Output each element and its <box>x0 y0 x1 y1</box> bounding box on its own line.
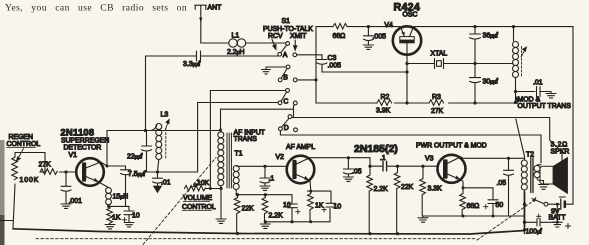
transistor V2 <box>287 156 315 184</box>
svg-text:.005: .005 <box>328 63 342 70</box>
capacitor 30uuf <box>470 64 481 104</box>
svg-text:Yes, you can use CB radio sets: Yes, you can use CB radio sets on <box>5 3 187 14</box>
capacitor 100uf <box>525 219 558 227</box>
node .05 junction (V2 collector) <box>347 156 350 159</box>
wire .01 branch <box>516 91 536 93</box>
node 30uuf top <box>473 62 476 65</box>
svg-text:7.5μμf: 7.5μμf <box>128 171 145 178</box>
antenna ANT <box>195 5 207 43</box>
node osc coil bottom / mod junction <box>514 90 517 93</box>
wire ground to switch B upper contact <box>266 66 286 68</box>
wire L1 to switch A upper contact <box>246 42 286 44</box>
capacitor 7.5uuf <box>121 170 131 207</box>
node 100uf right <box>556 221 559 224</box>
ground below 3.3K <box>418 216 428 222</box>
wire T1 secondary bottom <box>236 194 292 196</box>
svg-text:V3: V3 <box>425 156 434 163</box>
wire D upper riser corner down to T1 <box>220 109 222 129</box>
svg-text:2.2K: 2.2K <box>374 186 389 193</box>
node mod-R3 wire <box>514 101 517 104</box>
wire base line right part <box>388 165 437 167</box>
capacitor 3.3uuf <box>197 51 201 61</box>
wire riser x316 top wire to R2 wire <box>315 27 317 103</box>
wire V2 emitter <box>309 181 312 192</box>
resistor 68ohm (V3 emitter) <box>460 188 466 216</box>
svg-text:AF AMPL: AF AMPL <box>286 144 315 151</box>
svg-text:OSC: OSC <box>403 12 418 19</box>
wire V1 collector up and tank top <box>101 131 221 167</box>
transformer T1 <box>218 129 239 195</box>
arrow XMIT <box>294 40 297 50</box>
wire R2R3 line <box>316 102 516 104</box>
node tank top 3.3 riser <box>144 129 147 132</box>
underline regen control <box>7 147 36 149</box>
capacitor .05 (mod) <box>504 158 514 216</box>
node 2.2K rail <box>368 232 371 235</box>
arrow RCV <box>272 40 276 50</box>
wire mod line down to speaker <box>550 118 562 164</box>
svg-text:22μμf: 22μμf <box>127 154 142 161</box>
node collector-7.5 junction <box>106 165 109 168</box>
capacitor 10 (V2 emitter bypass) <box>326 191 336 207</box>
svg-text:36μμf: 36μμf <box>483 33 498 40</box>
capacitor 36uuf <box>470 27 481 64</box>
node C3 to base <box>405 70 408 73</box>
ground T2 secondary bottom <box>539 181 549 190</box>
switch pole D <box>279 115 298 132</box>
wire XTAL to osc coil <box>444 63 514 65</box>
node coupling left <box>368 165 371 168</box>
capacitor .005 (osc bypass) <box>363 27 373 41</box>
node T1 primary bottom <box>219 187 222 190</box>
coil L1 <box>229 39 246 47</box>
svg-text:27K: 27K <box>39 162 52 169</box>
wire V2 collector <box>310 157 370 159</box>
resistor 22K (V3 base) <box>394 166 400 234</box>
capacitor 22uuf <box>142 131 152 173</box>
svg-text:B: B <box>283 75 288 82</box>
node 100uf left <box>523 221 526 224</box>
plus sign (first 10) <box>296 210 300 214</box>
ground below .1 <box>260 186 270 190</box>
svg-text:.05: .05 <box>352 169 362 176</box>
svg-text:3.2Ω: 3.2Ω <box>551 142 569 149</box>
ground below 2.2K <box>260 222 270 229</box>
wire 3.3K ground to 68 bottom row <box>423 215 525 217</box>
svg-text:R3: R3 <box>432 94 441 101</box>
svg-text:XTAL: XTAL <box>431 51 448 58</box>
wire D pivot to audio line y135 <box>280 131 541 163</box>
plus sign (50) <box>484 205 488 209</box>
node 22K rail <box>236 232 239 235</box>
switch pole C <box>278 89 297 105</box>
ground below 10 <box>124 223 134 227</box>
battery 9V <box>559 197 573 209</box>
ground below .05 <box>343 177 353 181</box>
wire 3.3cap line <box>146 55 278 57</box>
page edge band <box>0 140 5 245</box>
svg-text:L3: L3 <box>161 112 169 119</box>
svg-text:3.3K: 3.3K <box>428 186 443 193</box>
plus sign battery ground <box>566 224 571 229</box>
wire top rail left of 68ohm <box>316 26 333 28</box>
capacitor 10 (first, V2 stage) <box>287 195 297 222</box>
coil osc tank (output transformer primary top) <box>513 27 527 92</box>
wire emitter bypass row <box>265 209 330 222</box>
wire V3 emitter <box>461 180 463 188</box>
wire pot bottom to rail <box>13 184 15 229</box>
ground at switch B <box>262 67 271 74</box>
wire base line left part <box>370 165 382 167</box>
wire tank bottom <box>147 171 198 173</box>
node L3 bottom <box>156 170 159 173</box>
svg-text:.1: .1 <box>269 176 275 183</box>
svg-text:.005: .005 <box>373 34 387 41</box>
capacitor .001 <box>61 172 71 204</box>
capacitor coupling .1 <box>383 162 387 171</box>
svg-text:27K: 27K <box>431 108 444 115</box>
node 68 bottom <box>462 215 465 218</box>
wire V4 collector to right <box>414 27 573 205</box>
svg-text:CONTROL: CONTROL <box>182 204 216 211</box>
wire antenna to L1 <box>201 42 229 44</box>
node 50 bottom <box>492 215 495 218</box>
node 2.2K bottom <box>264 220 267 223</box>
coil 15uH <box>106 188 112 205</box>
wire switch to battery <box>548 203 560 205</box>
svg-text:1K: 1K <box>112 215 121 222</box>
svg-text:10K: 10K <box>197 180 210 187</box>
wire B open contact to riser <box>297 79 316 81</box>
node .001 junction <box>64 170 67 173</box>
node 10 first bottom <box>290 220 293 223</box>
svg-text:VOLUME: VOLUME <box>183 195 213 202</box>
wire V4 base down <box>406 55 408 103</box>
wire 3.3 riser <box>145 56 147 131</box>
svg-text:V1: V1 <box>69 152 78 159</box>
transistor V1 <box>76 158 104 186</box>
wire C upper contact line <box>210 90 285 92</box>
svg-text:PWR OUTPUT & MOD: PWR OUTPUT & MOD <box>416 143 487 150</box>
wire T1 primary bottom to ground <box>220 189 222 220</box>
svg-text:V2: V2 <box>276 154 285 161</box>
node 22K top (V3 base) <box>396 165 399 168</box>
svg-text:22K: 22K <box>401 184 414 191</box>
node emitter-68 <box>462 186 465 189</box>
wire C pivot line <box>198 102 278 104</box>
node vol-C riser <box>209 187 212 190</box>
wire long modulation line y117.5 <box>292 117 550 119</box>
capacitor .01 (tank to ground) <box>153 172 163 186</box>
wire collector corner to base line <box>369 158 371 166</box>
underline control <box>182 210 212 212</box>
wire T1 secondary top to V2 base <box>238 165 286 167</box>
node 3.3K top <box>421 165 424 168</box>
dashed chassis line horizontal <box>36 238 477 240</box>
wire mod junction down <box>515 92 517 104</box>
ground below 1K <box>105 225 115 229</box>
svg-text:68Ω: 68Ω <box>333 33 346 40</box>
wire emitter row <box>463 188 493 199</box>
wire base to XTAL <box>407 63 434 65</box>
node 36uuf top <box>473 25 476 28</box>
potentiometer 10K volume <box>185 180 206 191</box>
svg-text:S1: S1 <box>282 18 291 25</box>
capacitor .01 (osc output) <box>537 87 552 97</box>
svg-text:3.3μμf: 3.3μμf <box>183 61 200 68</box>
svg-text:3.9K: 3.9K <box>376 108 391 115</box>
svg-text:A: A <box>283 52 288 59</box>
svg-text:2.2K: 2.2K <box>269 213 284 220</box>
resistor 2.2K (V3 bias upper) <box>367 166 373 234</box>
underline volume <box>183 201 210 203</box>
node .005 junction <box>367 25 370 28</box>
dashed chassis diagonal left <box>143 158 216 245</box>
svg-text:T1: T1 <box>235 151 243 158</box>
wire 68ohm to V4 emitter <box>347 26 400 28</box>
svg-text:C: C <box>283 99 288 106</box>
svg-text:V4: V4 <box>384 22 393 29</box>
svg-text:TRANS: TRANS <box>234 136 258 143</box>
ground below T1 <box>216 219 226 223</box>
wire pot top around label <box>15 153 45 173</box>
wire 27K to V1 base <box>59 171 75 173</box>
svg-text:2N185(2): 2N185(2) <box>354 143 398 155</box>
resistor 3.3K <box>420 166 426 216</box>
svg-text:.01: .01 <box>161 180 171 187</box>
resistor R2 3.9K <box>377 100 392 106</box>
ground battery <box>552 222 562 227</box>
node emitter junction <box>107 205 110 208</box>
resistor 22K (T1) <box>234 195 240 234</box>
node B riser junction <box>314 78 317 81</box>
node sec bottom left <box>236 193 239 196</box>
svg-text:2N1108: 2N1108 <box>61 128 95 138</box>
wire C open contact down to long wire <box>294 105 295 118</box>
resistor 68ohm (osc) <box>333 23 347 29</box>
node 1K top <box>309 190 312 193</box>
wire 1K 10 top row <box>308 190 332 192</box>
svg-text:R2: R2 <box>381 94 390 101</box>
svg-text:68Ω: 68Ω <box>467 203 480 210</box>
bottom rail <box>13 192 525 234</box>
svg-text:OUTPUT TRANS: OUTPUT TRANS <box>518 103 572 110</box>
svg-text:.01: .01 <box>533 80 543 87</box>
switch pole B <box>278 65 297 82</box>
svg-text:10: 10 <box>334 204 342 211</box>
svg-text:30μμf: 30μμf <box>483 79 498 86</box>
crystal XTAL <box>435 59 444 69</box>
svg-text:2.2μH: 2.2μH <box>227 49 244 56</box>
switch pole A <box>278 42 297 57</box>
stray mark left edge <box>0 220 13 222</box>
wire C pivot riser down to tank bottom <box>197 103 199 173</box>
resistor 27K (V1 base) <box>40 169 57 175</box>
wire osc to T2 diagonal <box>516 119 525 157</box>
wire T2 secondary top to speaker <box>539 164 542 166</box>
node rail T2 column <box>523 228 526 231</box>
svg-text:10: 10 <box>283 202 291 209</box>
wire emitter node <box>109 205 130 207</box>
node 30uuf bottom <box>473 101 476 104</box>
potentiometer 100K regen <box>12 149 24 180</box>
svg-text:100μf: 100μf <box>526 229 542 236</box>
resistor 1K (V2 emitter) <box>308 191 314 222</box>
plus sign (V2 emitter 10) <box>322 208 326 212</box>
ground right of .01 <box>546 92 556 98</box>
dashed chassis diagonal right <box>477 203 531 241</box>
wire 10K right to T1 bottom junction <box>206 188 221 190</box>
transformer T2 <box>521 157 543 234</box>
capacitor C3 .005 <box>297 55 407 72</box>
switch battery arm <box>532 199 544 204</box>
node xtal-base junction <box>405 62 408 65</box>
ground arrow below .01 <box>154 186 162 193</box>
resistor 1K (V1 emitter) <box>107 206 113 224</box>
svg-text:XMIT: XMIT <box>290 33 307 40</box>
node 22K rail (V3) <box>396 232 399 235</box>
node 1K bottom <box>309 220 312 223</box>
node .05 mod junction <box>507 157 510 160</box>
wire D upper feed <box>221 108 294 110</box>
svg-text:DETECTOR: DETECTOR <box>64 145 102 152</box>
resistor 2.2K (V2 base) <box>262 195 268 222</box>
wire C upper riser down <box>209 91 211 189</box>
plus sign 10 <box>122 218 126 222</box>
capacitor 10 (V1 emitter bypass) <box>124 206 134 222</box>
svg-text:.1: .1 <box>380 155 386 162</box>
plus sign 100uf <box>537 214 542 218</box>
transistor V4 <box>393 26 421 54</box>
wire to 7.5uuf <box>107 166 126 170</box>
svg-text:100K: 100K <box>20 177 40 184</box>
ground below .001 <box>61 204 71 208</box>
transistor V3 <box>438 155 466 183</box>
svg-text:22K: 22K <box>242 206 255 213</box>
svg-text:15μH: 15μH <box>113 194 129 201</box>
svg-text:D: D <box>284 125 289 132</box>
svg-text:C3: C3 <box>328 55 337 62</box>
capacitor .05 (V2 collector to ground) <box>343 158 353 177</box>
node B- junction (T2 bottom column) <box>523 203 526 206</box>
svg-text:.05: .05 <box>497 180 507 187</box>
node T1 top <box>219 129 222 132</box>
ground below .005 <box>363 41 373 50</box>
capacitor .1 (V2 base) <box>260 166 270 186</box>
svg-text:ANT: ANT <box>208 5 223 12</box>
svg-text:REGEN: REGEN <box>9 134 34 141</box>
capacitor 50 <box>488 200 498 216</box>
node base-R2R3 <box>405 101 408 104</box>
node osc coil top <box>512 25 515 28</box>
contact battery switch <box>544 202 548 206</box>
node battery gnd stem top <box>556 203 559 206</box>
svg-text:1K: 1K <box>315 203 324 210</box>
speaker <box>540 158 568 194</box>
node .1 junction <box>263 165 266 168</box>
svg-text:RCV: RCV <box>268 33 283 40</box>
arrow to mod wire <box>515 97 518 107</box>
node 2.2K top <box>264 193 267 196</box>
svg-text:10: 10 <box>132 213 140 220</box>
coil L3 <box>150 120 169 173</box>
svg-text:SUPERREGEN: SUPERREGEN <box>61 138 109 145</box>
svg-text:CONTROL: CONTROL <box>7 141 41 148</box>
wire V3 collector to T2 <box>461 157 525 159</box>
wire battery minus to ground <box>556 204 558 222</box>
resistor R3 27K <box>429 100 444 106</box>
svg-text:50: 50 <box>496 202 504 209</box>
svg-text:L1: L1 <box>232 33 240 40</box>
wire V1 emitter to 15uH <box>100 183 109 188</box>
